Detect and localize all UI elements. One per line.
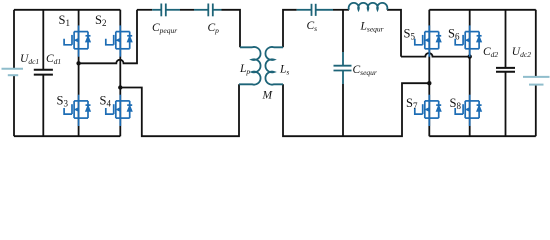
junction node at S6-S8 midpoint	[468, 54, 472, 58]
wire: left inverter top rail	[14, 9, 120, 11]
wire: Cd2 branch upper lead	[505, 10, 507, 68]
wire: inverter output A from S1-S3 midpoint with crossover hop to primary tank top	[79, 10, 137, 64]
inductor Lsequr	[349, 3, 388, 10]
wire: secondary Ls top lead up to Cs	[283, 10, 297, 48]
transistor S3	[64, 95, 90, 126]
wire: right outer branch above battery Udc2	[535, 10, 537, 77]
wire: Csequr branch upper black segment	[342, 10, 344, 52]
capacitor Cpequr	[152, 9, 161, 11]
transistor S8	[455, 95, 481, 126]
wire: Cd2 branch lower lead	[505, 72, 507, 136]
wire: Cd1 branch upper lead	[42, 10, 44, 70]
wire: inverter leg S1/S3	[78, 10, 80, 136]
wire: rectifier leg S6/S8	[469, 10, 471, 136]
wire: Cd1 branch lower lead	[42, 75, 44, 137]
wire: inverter output B from S2-S4 midpoint around to Lp bottom	[120, 84, 239, 136]
capacitor Cd1 plates	[34, 69, 53, 71]
wire: right rectifier top rail	[429, 9, 536, 11]
wire: secondary top rail segment after Lsequr turning down	[387, 10, 401, 57]
wire: secondary bottom return from Ls to S5-S7 midpoint	[283, 83, 429, 136]
wire: tank top rail segment after Cp down to Lp top	[222, 10, 241, 48]
dc source battery Udc1	[2, 68, 24, 70]
wire: right rectifier bottom rail	[429, 135, 536, 137]
transistor S6	[455, 25, 481, 56]
capacitor Cp	[194, 9, 208, 11]
junction node at S2-S4 midpoint	[118, 85, 122, 89]
wire: rectifier upper input with crossover hop to S6-S8 midpoint	[401, 53, 470, 57]
wire: inverter leg S2/S4	[119, 10, 121, 136]
svg-text:M: M	[262, 90, 274, 102]
capacitor Csequr shunt	[342, 52, 344, 66]
wire: secondary top rail segment between Cs and Lsequr	[333, 9, 349, 11]
transistor S7	[415, 95, 441, 126]
transistor S5	[415, 25, 441, 56]
wire: tank top rail segment between Cpequr and Cp	[180, 9, 194, 11]
dc source battery Udc2	[523, 76, 550, 78]
capacitor Cs	[297, 9, 312, 11]
junction node at S5-S7 midpoint	[427, 81, 431, 85]
inductor Ls secondary coil	[265, 47, 283, 85]
wire: right outer branch below battery Udc2	[535, 85, 537, 137]
wire: rectifier leg S5/S7	[428, 10, 430, 136]
capacitor Cd2 plates	[496, 67, 515, 69]
inductor Lp primary coil	[239, 47, 261, 85]
transistor S2	[106, 25, 132, 56]
transistor S1	[64, 25, 90, 56]
wire: left inverter bottom rail	[14, 135, 120, 137]
wire: Csequr branch lower black segment	[342, 84, 344, 136]
wire: left outer branch below battery Udc1	[13, 75, 15, 136]
transistor S4	[106, 95, 132, 126]
junction node at S1-S3 midpoint	[76, 61, 80, 65]
wire: left outer branch above battery Udc1	[13, 10, 15, 69]
wire: tank top rail segment before Cpequr	[137, 9, 152, 11]
